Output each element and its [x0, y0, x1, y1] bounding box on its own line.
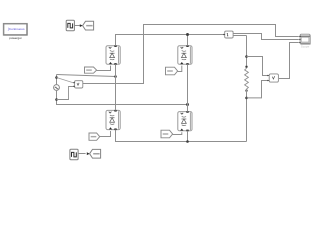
svg-text:Scope: Scope [301, 45, 310, 49]
wire F1 to T1 gate [97, 66, 111, 71]
wire Vload output to scope port3 [279, 43, 299, 79]
node right leg midpoint [186, 103, 189, 106]
wire F2 to T2 gate [178, 66, 182, 72]
from tag F1 [85, 67, 97, 73]
wire I1 series out to load branch [233, 35, 246, 37]
from tag F3 [89, 133, 100, 140]
goto tag Goto1 [83, 21, 94, 30]
wire I1 signal to scope port2 [233, 34, 299, 40]
from tag F4 [161, 130, 173, 138]
wire source plus to left leg midpoint [57, 75, 116, 77]
series RLC branch bottom pad [245, 90, 247, 92]
thyristor T2 top-right [178, 45, 192, 64]
node load top tap [245, 55, 248, 58]
resistor R1 [245, 68, 249, 89]
wire F4 to T4 gate [173, 132, 182, 134]
svg-text:powergui: powergui [9, 36, 22, 40]
wire left leg [115, 64, 117, 110]
node left leg midpoint [114, 75, 117, 78]
wire right leg [187, 64, 189, 111]
arrowhead into Goto2 [87, 152, 90, 155]
wire tap diagonal to voltmeter plus [57, 78, 74, 83]
thyristor T3 bottom-left [106, 110, 120, 130]
wire P2 to Goto2 [78, 153, 86, 155]
current measurement I1 [224, 31, 234, 38]
wire bottom rail [116, 130, 247, 142]
node top rail T2 [186, 33, 189, 36]
powergui block [4, 24, 28, 41]
wire source minus down and across to right leg midpoint [57, 91, 188, 105]
goto tag Goto2 [90, 149, 101, 158]
arrowhead into Goto1 [80, 24, 83, 27]
thyristor T1 top-left [106, 45, 120, 64]
wire load bottom tap to voltmeter minus [247, 81, 268, 98]
load branch vertical lower [246, 89, 248, 142]
scope [299, 34, 310, 44]
wire T2 drop from top rail [187, 35, 189, 46]
svg-text:∫Continuous: ∫Continuous [7, 27, 25, 31]
series RLC branch top pad [245, 66, 247, 68]
wire P1 to Goto1 [74, 25, 80, 27]
thyristor T4 bottom-right [178, 111, 192, 131]
wire F3 to T3 gate [100, 131, 111, 137]
wire top rail [116, 35, 224, 46]
from tag F2 [166, 67, 178, 75]
node load bottom tap [245, 97, 248, 100]
voltage measurement Vload [268, 74, 279, 82]
pulse generator P2 [70, 149, 78, 160]
pulse generator P1 [66, 20, 74, 31]
node bottom rail T4 [186, 140, 189, 143]
wire tap to voltmeter minus [57, 87, 74, 100]
node source plus tap [55, 76, 58, 79]
voltage measurement Vsrc [74, 81, 83, 88]
wire T4 drop to bottom rail [187, 131, 189, 142]
wire load top tap to voltmeter plus [247, 57, 268, 76]
load branch vertical upper [246, 36, 248, 69]
wire source plus up [56, 75, 58, 85]
node source minus tap [55, 98, 58, 101]
wire Vsrc output signal to scope port1 [83, 25, 299, 84]
AC voltage source V1 [54, 85, 60, 91]
